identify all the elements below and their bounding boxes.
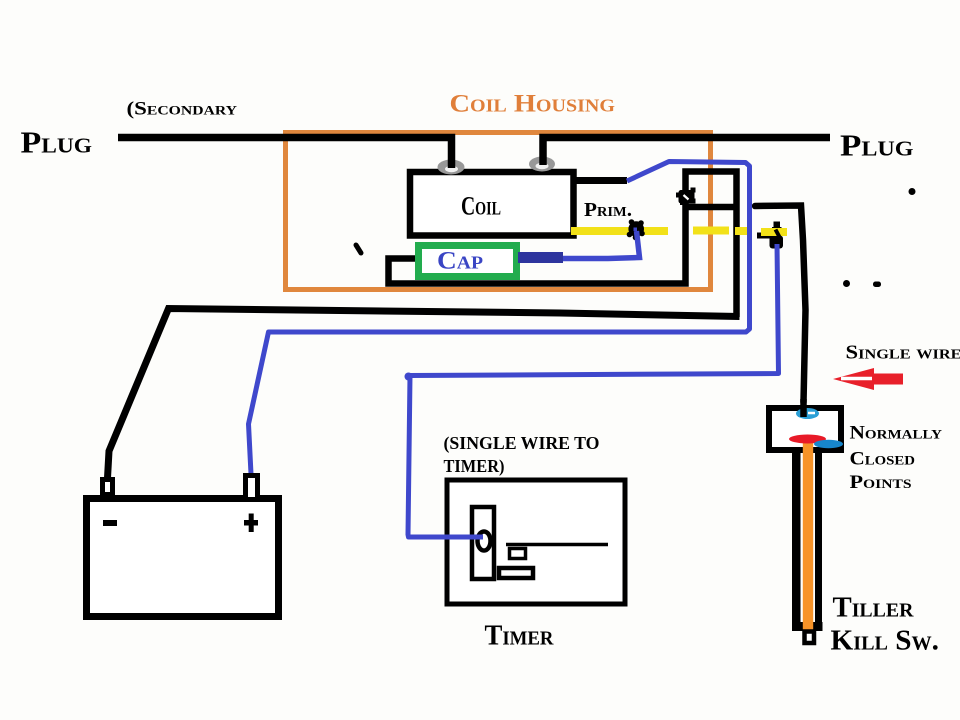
svg-text:Tiller: Tiller bbox=[833, 592, 915, 624]
label: minus bbox=[103, 520, 117, 526]
kill switch lower point (blue) bbox=[814, 440, 843, 448]
svg-text:Coil Housing: Coil Housing bbox=[450, 89, 616, 118]
wire: navy capacitor lead (thick) bbox=[518, 252, 563, 263]
timer base block bbox=[499, 568, 533, 578]
wire: blue coil primary to battery positive bbox=[249, 162, 750, 475]
wire: battery negative lead (long run) bbox=[108, 309, 740, 479]
kill switch lever (orange) bbox=[803, 441, 813, 630]
wire: points lead to kill switch bbox=[755, 206, 806, 403]
kill switch upper point (cyan) bbox=[796, 408, 819, 419]
speck dot mid right bbox=[843, 280, 850, 287]
svg-text:Prim.: Prim. bbox=[584, 199, 632, 221]
coil housing outline bbox=[286, 133, 711, 290]
junction star at kill-switch tap bbox=[757, 222, 783, 249]
plug terminal (left, secondary tower) bbox=[438, 160, 465, 175]
svg-text:Kill Sw.: Kill Sw. bbox=[831, 625, 940, 657]
wire: secondary lead to right plug bbox=[543, 138, 830, 166]
kill switch body box bbox=[769, 408, 841, 450]
kill switch lower point (red) bbox=[789, 435, 826, 444]
red arrow pointer bbox=[833, 368, 903, 390]
wire: yellow points lead dash 3 (over star) bbox=[761, 228, 787, 236]
junction dot at timer wire corner bbox=[405, 373, 413, 381]
capacitor C1 box bbox=[419, 246, 517, 277]
svg-text:Cap: Cap bbox=[437, 248, 483, 275]
timer armature post bbox=[472, 507, 494, 579]
svg-text:Coil: Coil bbox=[461, 191, 501, 221]
wire: primary box inner link bbox=[687, 204, 734, 211]
wire: yellow points lead (solid) bbox=[571, 227, 668, 235]
junction star overlap stroke bbox=[776, 230, 781, 239]
speck dash mid right bbox=[873, 282, 881, 288]
junction star on yellow points lead bbox=[627, 219, 645, 240]
wire: blue kill-switch tap to timer bbox=[408, 244, 779, 537]
wire: yellow points lead dash 1 bbox=[693, 227, 729, 235]
svg-text:Normally: Normally bbox=[850, 424, 943, 444]
kill switch tip bbox=[805, 632, 815, 644]
svg-text:Plug: Plug bbox=[840, 129, 914, 163]
junction star on primary vertical bbox=[676, 188, 696, 206]
svg-text:Points: Points bbox=[850, 473, 912, 493]
pen slip mark bbox=[356, 245, 361, 253]
wire: coil primary stub bbox=[571, 177, 627, 184]
battery negative terminal bbox=[103, 480, 113, 495]
kill switch shaft right wall bbox=[815, 450, 822, 624]
battery positive terminal bbox=[246, 476, 258, 500]
svg-text:(SINGLE WIRE TO: (SINGLE WIRE TO bbox=[444, 433, 600, 454]
coil U1 box bbox=[410, 172, 574, 236]
svg-text:Plug: Plug bbox=[21, 126, 93, 160]
svg-text:Closed: Closed bbox=[850, 450, 916, 470]
svg-text:(Secondary: (Secondary bbox=[127, 99, 238, 120]
wire: yellow points lead dash 2 bbox=[735, 227, 750, 235]
plug terminal (right, secondary tower) bbox=[529, 157, 555, 172]
timer cam ring bbox=[478, 532, 491, 551]
speck dot upper right bbox=[909, 188, 916, 195]
kill switch shaft left wall bbox=[792, 450, 801, 631]
timer contact block bbox=[510, 549, 526, 559]
kill switch shaft bottom bbox=[792, 622, 823, 631]
wire: secondary lead to left plug bbox=[118, 138, 452, 169]
svg-text:TIMER): TIMER) bbox=[444, 456, 505, 477]
svg-text:Single wire: Single wire bbox=[846, 343, 960, 364]
timer contact arm bbox=[506, 543, 608, 547]
timer T1 box bbox=[447, 480, 625, 604]
battery B1 box bbox=[87, 499, 279, 617]
wire stub into kill switch bbox=[800, 399, 807, 417]
label: plus bbox=[244, 514, 258, 533]
wire: cap ground loop (cap to housing to primary box) bbox=[389, 172, 737, 318]
wire: blue junction to capacitor bbox=[562, 231, 640, 259]
svg-text:Timer: Timer bbox=[485, 621, 555, 652]
